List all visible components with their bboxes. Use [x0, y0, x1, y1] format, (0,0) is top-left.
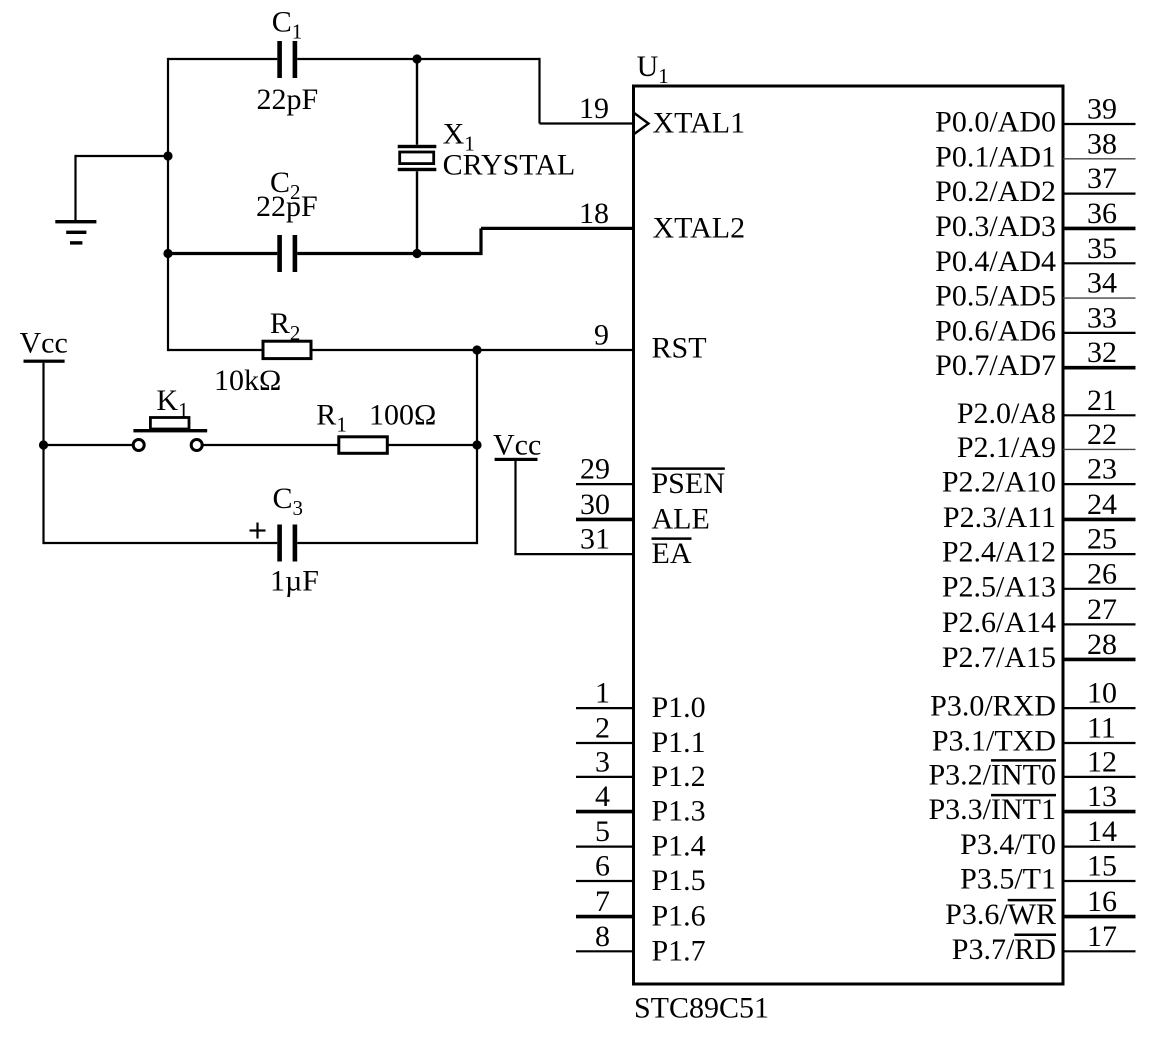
- svg-text:33: 33: [1087, 301, 1117, 334]
- wire pin 13 stub: [1063, 810, 1136, 814]
- capacitor C1: [277, 41, 282, 78]
- wire pin 11 stub: [1063, 742, 1136, 744]
- wire pin 27 stub: [1063, 623, 1136, 625]
- wire Vcc left rail: [42, 363, 44, 544]
- svg-text:P0.0/AD0: P0.0/AD0: [935, 106, 1056, 139]
- node junction C2 left: [163, 249, 172, 258]
- resistor R2: [263, 341, 311, 358]
- wire pin 35 stub: [1063, 262, 1136, 264]
- svg-text:P3.6/WR: P3.6/WR: [945, 898, 1056, 931]
- svg-text:P1.6: P1.6: [652, 900, 706, 933]
- wire pin 1 P1.0 stub: [576, 707, 634, 709]
- svg-text:7: 7: [595, 885, 610, 918]
- wire pin 19 XTAL1: [540, 122, 634, 124]
- svg-text:P0.7/AD7: P0.7/AD7: [935, 349, 1056, 382]
- wire pin 14 stub: [1063, 845, 1136, 847]
- svg-text:31: 31: [580, 523, 610, 556]
- wire pin 28 stub: [1063, 658, 1136, 662]
- wire pin 30 ALE stub: [576, 518, 634, 522]
- wire pin 10 stub: [1063, 707, 1136, 709]
- wire pin 18 XTAL2: [481, 227, 634, 230]
- svg-text:29: 29: [580, 453, 610, 486]
- svg-text:11: 11: [1087, 712, 1116, 745]
- ground symbol: [55, 220, 96, 223]
- svg-text:P3.1/TXD: P3.1/TXD: [932, 725, 1056, 758]
- wire pin 26 stub: [1063, 588, 1136, 590]
- node junction ground tap: [163, 151, 172, 160]
- crystal X1: [416, 59, 418, 145]
- wire pin 24 stub: [1063, 518, 1136, 522]
- svg-text:1µF: 1µF: [270, 565, 319, 598]
- wire C1 top net: [168, 58, 277, 60]
- svg-text:CRYSTAL: CRYSTAL: [443, 149, 576, 182]
- wire K1 row: [44, 444, 133, 446]
- svg-text:PSEN: PSEN: [652, 467, 725, 500]
- wire pin 6 P1.5 stub: [576, 880, 634, 882]
- wire pin 32 stub: [1063, 366, 1136, 370]
- svg-text:P1.4: P1.4: [652, 830, 706, 863]
- polarity plus sign of C3: [250, 529, 266, 531]
- node junction RST column top: [472, 345, 481, 354]
- svg-text:37: 37: [1087, 162, 1117, 195]
- svg-text:16: 16: [1087, 885, 1117, 918]
- svg-text:17: 17: [1087, 920, 1117, 953]
- svg-text:RST: RST: [652, 332, 707, 365]
- svg-text:9: 9: [594, 319, 609, 352]
- wire pin 29 PSEN stub: [576, 483, 634, 485]
- wire Vcc to EA pin 31: [514, 461, 516, 554]
- svg-text:3: 3: [595, 745, 610, 778]
- svg-text:P2.0/A8: P2.0/A8: [957, 397, 1056, 430]
- svg-text:XTAL1: XTAL1: [653, 107, 746, 140]
- svg-text:24: 24: [1087, 488, 1117, 521]
- svg-text:8: 8: [595, 920, 610, 953]
- svg-text:P1.7: P1.7: [652, 934, 706, 967]
- svg-text:P0.1/AD1: P0.1/AD1: [935, 140, 1056, 173]
- svg-text:P2.3/A11: P2.3/A11: [943, 501, 1056, 534]
- wire pin 38 stub: [1063, 158, 1136, 160]
- svg-text:2: 2: [595, 712, 610, 745]
- svg-text:P3.7/RD: P3.7/RD: [952, 933, 1056, 966]
- wire pin 36 stub: [1063, 227, 1136, 231]
- svg-text:10: 10: [1087, 677, 1117, 710]
- switch K1 push-button: [133, 440, 144, 451]
- svg-text:XTAL2: XTAL2: [653, 211, 746, 244]
- node junction K1 left: [39, 440, 48, 449]
- svg-text:P1.0: P1.0: [652, 691, 706, 724]
- svg-text:34: 34: [1087, 267, 1117, 300]
- svg-text:5: 5: [595, 815, 610, 848]
- svg-text:21: 21: [1087, 384, 1117, 417]
- wire pin 22 stub: [1063, 448, 1136, 450]
- svg-text:12: 12: [1087, 745, 1117, 778]
- svg-text:28: 28: [1087, 628, 1117, 661]
- svg-text:ALE: ALE: [652, 502, 710, 535]
- wire pin 21 stub: [1063, 414, 1136, 416]
- node junction crystal bottom: [412, 249, 421, 258]
- resistor R1: [339, 437, 388, 454]
- node junction R1 right: [472, 440, 481, 449]
- svg-text:Vcc: Vcc: [20, 327, 68, 360]
- svg-text:P3.5/T1: P3.5/T1: [960, 863, 1056, 896]
- svg-text:P2.4/A12: P2.4/A12: [942, 536, 1056, 569]
- wire pin 34 stub: [1063, 297, 1136, 299]
- svg-text:P3.0/RXD: P3.0/RXD: [930, 690, 1056, 723]
- wire C2 net: [168, 252, 277, 255]
- svg-text:P3.3/INT1: P3.3/INT1: [929, 793, 1057, 826]
- svg-text:10kΩ: 10kΩ: [214, 364, 281, 397]
- svg-text:27: 27: [1087, 593, 1117, 626]
- svg-text:25: 25: [1087, 523, 1117, 556]
- wire pin 25 stub: [1063, 553, 1136, 555]
- wire pin 7 P1.6 stub: [576, 915, 634, 919]
- svg-text:19: 19: [579, 92, 609, 125]
- wire pin 5 P1.4 stub: [576, 845, 634, 847]
- capacitor C3 electrolytic: [277, 525, 282, 562]
- svg-text:P0.3/AD3: P0.3/AD3: [935, 210, 1056, 243]
- svg-text:22pF: 22pF: [256, 190, 318, 223]
- svg-text:P1.5: P1.5: [652, 864, 706, 897]
- svg-text:STC89C51: STC89C51: [634, 992, 769, 1025]
- capacitor C2: [277, 235, 282, 272]
- svg-text:35: 35: [1087, 232, 1117, 265]
- svg-text:P1.3: P1.3: [652, 795, 706, 828]
- svg-text:P1.2: P1.2: [652, 760, 706, 793]
- svg-text:36: 36: [1087, 197, 1117, 230]
- wire pin 17 stub: [1063, 950, 1136, 952]
- svg-text:P1.1: P1.1: [652, 726, 706, 759]
- svg-text:P0.2/AD2: P0.2/AD2: [935, 175, 1056, 208]
- svg-text:P3.2/INT0: P3.2/INT0: [929, 758, 1057, 791]
- wire pin 39 stub: [1063, 123, 1136, 125]
- svg-text:14: 14: [1087, 815, 1117, 848]
- svg-text:26: 26: [1087, 557, 1117, 590]
- wire pin 4 P1.3 stub: [576, 810, 634, 814]
- wire pin 16 stub: [1063, 915, 1136, 919]
- svg-text:P2.2/A10: P2.2/A10: [942, 466, 1056, 499]
- svg-text:100Ω: 100Ω: [369, 399, 436, 432]
- svg-text:Vcc: Vcc: [493, 428, 541, 461]
- ground wire: [76, 155, 169, 157]
- svg-text:P2.5/A13: P2.5/A13: [942, 570, 1056, 603]
- wire pin 2 P1.1 stub: [576, 742, 634, 744]
- svg-text:1: 1: [595, 677, 610, 710]
- svg-text:P0.4/AD4: P0.4/AD4: [935, 245, 1056, 278]
- svg-text:P3.4/T0: P3.4/T0: [960, 828, 1056, 861]
- svg-text:EA: EA: [652, 537, 692, 570]
- svg-text:22pF: 22pF: [257, 83, 319, 116]
- wire pin 3 P1.2 stub: [576, 776, 634, 778]
- wire pin 37 stub: [1063, 193, 1136, 195]
- svg-text:P0.6/AD6: P0.6/AD6: [935, 314, 1056, 347]
- svg-text:38: 38: [1087, 127, 1117, 160]
- node junction crystal top: [412, 54, 421, 63]
- wire RST vertical: [476, 350, 478, 544]
- wire RST net: [168, 349, 263, 351]
- wire pin 8 P1.7 stub: [576, 950, 634, 952]
- svg-text:18: 18: [579, 197, 609, 230]
- svg-text:30: 30: [580, 488, 610, 521]
- svg-text:39: 39: [1087, 93, 1117, 126]
- svg-text:32: 32: [1087, 336, 1117, 369]
- svg-text:P2.1/A9: P2.1/A9: [957, 431, 1056, 464]
- svg-text:P2.6/A14: P2.6/A14: [942, 606, 1056, 639]
- svg-text:13: 13: [1087, 780, 1117, 813]
- svg-text:22: 22: [1087, 418, 1117, 451]
- svg-text:23: 23: [1087, 453, 1117, 486]
- pin label XTAL1 with clock triangle: [634, 113, 649, 135]
- IC U1 microcontroller body: [634, 86, 1064, 984]
- wire left vertical rail: [167, 58, 169, 351]
- wire pin 12 stub: [1063, 776, 1136, 778]
- wire C3 row: [44, 542, 278, 544]
- svg-text:P2.7/A15: P2.7/A15: [942, 641, 1056, 674]
- svg-text:P0.5/AD5: P0.5/AD5: [935, 280, 1056, 313]
- wire pin 23 stub: [1063, 483, 1136, 485]
- svg-text:4: 4: [595, 780, 610, 813]
- wire pin 33 stub: [1063, 332, 1136, 334]
- svg-text:15: 15: [1087, 850, 1117, 883]
- svg-text:6: 6: [595, 850, 610, 883]
- wire pin 15 stub: [1063, 880, 1136, 882]
